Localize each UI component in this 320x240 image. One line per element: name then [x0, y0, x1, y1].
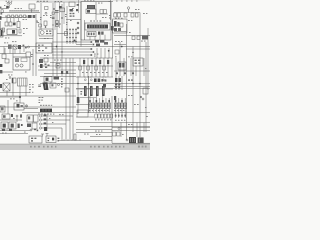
fan wire 4: [42, 127, 62, 129]
wire A1 drop: [31, 9, 33, 13]
cap row boxes: [89, 103, 127, 109]
transistor blobs: [83, 60, 109, 64]
tail marks: [115, 115, 126, 117]
cluster marks: [45, 64, 50, 69]
dash cluster low: [34, 129, 38, 132]
TR gray mark 1: [114, 28, 117, 31]
wire x13 vertical: [12, 47, 14, 58]
radio dark blob: [129, 137, 136, 143]
box inner marks: [48, 138, 50, 142]
circle low: [30, 129, 32, 131]
wire y122.5: [76, 122, 150, 124]
wire y130.5 right: [112, 130, 150, 132]
U1 pin drops: [90, 35, 105, 40]
junction dot 2: [88, 83, 90, 85]
wire y58: [40, 57, 113, 59]
dark blob right edge: [111, 26, 114, 31]
wire x112.5 vertical: [112, 20, 114, 58]
big box outline: [36, 43, 52, 53]
small box mid: [45, 7, 49, 10]
comp box a: [118, 13, 121, 17]
cluster box dark: [39, 59, 43, 63]
wire x126.5 vertical: [126, 24, 128, 140]
wire x140 vertical: [139, 13, 141, 138]
circle left of radio: [126, 139, 128, 141]
wire y132.5: [76, 132, 112, 134]
wire x96 vertical: [95, 2, 97, 20]
comp top boxes: [95, 114, 113, 118]
left edge dark mark: [0, 84, 2, 88]
TR dark comp right: [142, 36, 148, 40]
T-marks: [41, 133, 49, 136]
drops: [6, 91, 8, 96]
circle node dot: [26, 106, 27, 107]
bundle dark dot: [53, 8, 54, 9]
bottom band top edge: [0, 143, 150, 145]
cap row text: [89, 109, 124, 112]
circle top: [9, 77, 11, 79]
left mark: [77, 4, 79, 6]
comp box d2: [135, 13, 138, 17]
wire y127.5 right: [112, 127, 150, 129]
circle node: [142, 98, 144, 100]
marks right: [101, 79, 106, 82]
wire x81 vertical: [80, 2, 82, 47]
dot in box: [57, 65, 58, 66]
wire x146 vertical: [145, 42, 147, 132]
wire x120 vertical: [119, 42, 121, 76]
wire x78 vertical: [77, 76, 79, 114]
relay box outline: [118, 62, 126, 70]
switch marks: [44, 114, 47, 124]
wire y86.5 right: [114, 86, 150, 88]
small box pair b: [117, 132, 120, 136]
relay2 dark core: [11, 124, 14, 128]
comp outline: [56, 21, 59, 27]
lamp riser: [128, 9, 130, 12]
bottom box left: [29, 136, 42, 143]
module inner marks: [135, 60, 141, 64]
junction dots on y84: [132, 83, 134, 85]
cluster box c: [32, 123, 37, 129]
vertical x119: [118, 76, 120, 90]
relay dark blob 1: [119, 63, 121, 68]
cluster outline box: [113, 19, 128, 33]
junction dot y97: [19, 96, 21, 98]
cluster dark mark: [70, 9, 74, 12]
wire under gauge: [39, 38, 53, 40]
wire x5 vertical: [4, 48, 6, 54]
small box: [120, 23, 123, 27]
wire y31.5: [114, 31, 127, 33]
strip2 dark mark 2: [33, 15, 36, 18]
connector pin grid verticals: [67, 28, 76, 44]
wire y72: [0, 71, 13, 73]
contact K3 dark: [13, 23, 16, 26]
node dot: [45, 26, 46, 27]
junction dot: [140, 96, 142, 98]
box inner mark: [51, 84, 53, 86]
dark blob on bus: [18, 45, 21, 49]
top region border line: [36, 1, 81, 3]
wire stub: [0, 8, 7, 10]
left small blob: [76, 9, 78, 11]
row text: [82, 71, 108, 74]
bottom scan band: [0, 145, 150, 150]
resistor R1: [17, 22, 20, 28]
wire terminal strip top: [0, 12, 40, 14]
module A3: [60, 8, 65, 12]
pin dots: [77, 23, 80, 34]
marks right of box: [58, 138, 60, 142]
R text: [128, 95, 147, 108]
wire y117: [76, 116, 94, 118]
fan wire 1: [42, 115, 73, 117]
node circle: [45, 12, 47, 14]
box mid dark cell: [17, 104, 20, 108]
comp small: [44, 21, 47, 26]
relay coil circle 2: [20, 64, 23, 67]
connector inner dashes: [20, 78, 26, 86]
wire x110.5 vertical: [110, 0, 112, 20]
strip2 fill marks: [5, 15, 27, 17]
left edge dash 2: [0, 70, 2, 73]
relay inner rect2: [21, 58, 27, 62]
wire y44.5 right: [114, 44, 126, 46]
wire x36 vertical: [35, 14, 37, 76]
bus drop x20: [19, 49, 21, 54]
wire y35.5: [114, 35, 150, 37]
small box left: [5, 59, 9, 63]
connector pin grid dots: [66, 29, 77, 43]
wire y19.5: [66, 19, 81, 21]
box top: [44, 77, 52, 83]
TR dark block 2: [117, 22, 119, 27]
IC bars: [84, 86, 87, 96]
box dark edge: [12, 78, 13, 83]
wire bus y107: [0, 106, 76, 108]
bundle small box: [52, 12, 54, 14]
dot row: [116, 72, 134, 74]
wire main bus y46.5: [0, 46, 150, 48]
edge box inner: [1, 107, 4, 110]
connector J1: [0, 29, 3, 37]
wire y76.5: [40, 76, 76, 78]
wire y73.5: [44, 73, 76, 75]
TM text marks: [37, 1, 49, 39]
wire y108.5: [24, 108, 38, 110]
wire y92.5 left: [0, 92, 30, 94]
dark blob y71 a: [61, 71, 63, 74]
strip2 dark marks: [28, 15, 32, 18]
node circle: [36, 21, 38, 23]
dark mark low: [114, 96, 116, 100]
dark mark: [18, 124, 20, 128]
verticals below text cluster: [97, 48, 109, 58]
bar A slits: [89, 6, 93, 9]
gauge motor circle: [40, 31, 44, 35]
tiny text row above y107: [40, 105, 52, 106]
node dot x62: [61, 17, 62, 18]
amp dark blob: [138, 137, 144, 143]
dark square pair: [94, 79, 97, 83]
box B dark cell: [87, 10, 90, 13]
capacitor C2 plates: [55, 10, 59, 12]
box inner dark dot: [52, 138, 54, 141]
wire x41 vertical: [40, 3, 42, 30]
dark pair b: [118, 78, 121, 82]
fan line terminals: [91, 41, 95, 56]
box C inner marks: [88, 33, 95, 36]
box mid marks: [21, 105, 23, 107]
dark dot x33: [32, 63, 34, 65]
junction dot: [132, 52, 133, 53]
comp small: [19, 29, 21, 33]
gauge inner marks: [46, 31, 51, 35]
cluster box outline: [44, 58, 48, 62]
wire x70 vertical: [69, 58, 71, 140]
TR dark block 1: [114, 21, 117, 27]
IC bar 4: [102, 86, 105, 96]
box top dark cell: [46, 78, 49, 81]
BL text: [2, 118, 26, 134]
wire y49 right: [126, 48, 150, 50]
right cluster box: [69, 2, 75, 7]
U1 long dark bar: [87, 25, 108, 29]
switch S1: [1, 10, 3, 13]
dark square pair b: [98, 79, 101, 83]
wire y129.5: [76, 129, 112, 131]
ticks on y140.5: [64, 139, 80, 141]
box right: [143, 88, 148, 94]
verticals low: [121, 123, 144, 138]
small box pair: [113, 132, 116, 136]
U1 pin circles left: [77, 22, 79, 34]
junction dots on y83.5: [77, 83, 79, 85]
dark blob y71 b: [66, 71, 68, 74]
top text row: [84, 76, 106, 79]
wire y33: [57, 33, 66, 35]
wire right top: [114, 12, 140, 14]
wire x88.5 vertical strong: [88, 76, 90, 113]
text row: [84, 119, 111, 134]
marks below: [115, 84, 120, 88]
comp box e: [137, 36, 140, 40]
junction dot x74 y40: [74, 40, 76, 42]
wire y44.5: [76, 44, 92, 46]
marks: [128, 79, 133, 80]
lamp L2: [10, 2, 12, 4]
cluster marks: [70, 13, 75, 17]
marks column: [61, 78, 63, 87]
text row: [115, 119, 125, 122]
bottom box center: [46, 136, 56, 143]
long bar slits: [90, 25, 105, 28]
cluster dark blob: [40, 64, 43, 68]
TC text marks: [50, 1, 74, 25]
wire y120: [0, 119, 22, 121]
dark marks right of box C: [98, 32, 100, 35]
junction dot: [139, 83, 141, 85]
wire y97 stub: [0, 96, 20, 98]
wire x20 vertical mid: [19, 86, 21, 103]
wire y88.5: [76, 88, 150, 90]
junction dot: [21, 124, 23, 126]
wire y77 center: [76, 76, 113, 78]
dark text cluster: [95, 40, 108, 46]
marks: [20, 114, 22, 117]
circle: [16, 115, 18, 117]
IC bar 2: [90, 86, 93, 96]
wire x112 vertical low: [111, 96, 113, 143]
left edge mark: [0, 7, 1, 9]
contact row drops: [1, 18, 19, 31]
wire y52: [52, 51, 92, 53]
paper background: [0, 0, 150, 150]
wire x47 vertical low: [46, 114, 48, 131]
wire y143.2 bottom: [112, 142, 150, 144]
wire y70: [38, 69, 76, 71]
dark dot: [108, 50, 110, 52]
node N1 dark dot: [56, 23, 58, 25]
node circle: [28, 46, 30, 48]
vertical x122: [121, 76, 123, 90]
wire y14: [96, 13, 108, 15]
small box pair: [100, 10, 103, 14]
box mid: [14, 103, 24, 110]
switch 1: [39, 115, 41, 117]
lamp L1: [7, 2, 9, 4]
small box pair 2: [103, 10, 106, 14]
small box w dot: [56, 64, 60, 69]
comp marks on bus: [23, 45, 27, 49]
wire x62 vertical: [61, 4, 63, 76]
cap row top marks: [89, 100, 123, 102]
blob slit: [45, 84, 47, 89]
top box inner: [3, 115, 6, 118]
text above bar: [84, 0, 113, 21]
blob right of bars: [103, 84, 106, 88]
IC bar top circles: [84, 79, 104, 81]
edge box low: [0, 106, 5, 112]
wire x133 vertical: [132, 47, 134, 133]
comp box a0: [114, 13, 117, 17]
text right: [38, 114, 64, 123]
relay box 1: [1, 122, 8, 129]
comp blob on bus: [8, 45, 12, 49]
fan drop: [61, 128, 63, 141]
box right: [26, 52, 31, 57]
right cluster box b: [34, 115, 39, 122]
relay inner rect: [15, 58, 19, 62]
wire y97.5: [80, 97, 96, 99]
wire y55: [52, 54, 92, 56]
bottom marks row: [2, 129, 12, 131]
wire x67: [66, 6, 68, 34]
J1 dark bar: [1, 30, 3, 36]
cluster a inner: [28, 116, 30, 119]
wire x116 vertical: [115, 58, 117, 90]
TB1 dark cell: [12, 30, 15, 34]
U1 box C: [87, 32, 96, 37]
switch 3: [39, 123, 41, 125]
relay1 dark core: [3, 124, 6, 128]
wire y130.5 left: [0, 130, 30, 132]
dark bar slits: [43, 109, 49, 111]
wire y89 behind bars: [76, 88, 113, 90]
dash right of box: [11, 114, 13, 117]
relay dark blob 2: [122, 63, 124, 68]
wire x53 vertical: [52, 3, 54, 76]
text lines left: [39, 97, 44, 103]
TL text marks: [4, 1, 28, 39]
bus drop x4: [3, 47, 5, 54]
cap marks x39: [38, 85, 41, 87]
strip tick bulbs: [10, 10, 39, 11]
cap row tails: [116, 113, 126, 119]
wire y133.5 left: [0, 133, 28, 135]
BR text: [122, 116, 148, 135]
lamp L3: [127, 7, 129, 9]
bundle dots: [52, 23, 60, 25]
switch 2: [39, 119, 41, 121]
bundle dark box: [59, 6, 62, 8]
ML text: [4, 41, 33, 75]
relay coil circle 1: [15, 64, 18, 67]
dark text blob: [54, 77, 60, 80]
wire y53.5: [0, 53, 26, 55]
wire x57 vertical: [56, 10, 58, 76]
wire bus y112.5: [22, 112, 150, 114]
top small box: [2, 114, 10, 119]
wire y71 right: [114, 70, 150, 72]
U1 outline: [81, 2, 111, 41]
wire y66: [38, 65, 113, 67]
lamp base dark mark: [6, 6, 9, 9]
marks left: [80, 91, 82, 95]
wire y49: [52, 48, 92, 50]
dark bar under y107: [40, 109, 52, 112]
wire lamp drop: [8, 4, 10, 8]
left edge square: [0, 13, 2, 15]
node circle: [57, 83, 59, 85]
comp box d: [132, 36, 135, 40]
wire left vert: [0, 21, 2, 30]
wire y126.5: [90, 126, 150, 128]
contact K1: [5, 22, 8, 26]
cap row inner dots: [90, 104, 126, 107]
bus drop x10: [9, 49, 11, 54]
left edge dash 1: [0, 64, 2, 67]
x78 dark blob: [77, 97, 80, 103]
dark mark 2: [101, 32, 103, 35]
bus drop x24: [23, 47, 25, 53]
box inner marks: [38, 45, 47, 52]
comp box b: [124, 13, 127, 17]
comp at 66: [65, 32, 68, 36]
fan wire 3: [42, 123, 66, 125]
box beside blob: [50, 83, 56, 88]
wire x84.5 vertical: [84, 20, 86, 40]
wire y62.5: [50, 62, 76, 64]
amp slit: [139, 138, 141, 142]
bottom band text marks: [30, 146, 147, 148]
circle node: [25, 105, 27, 107]
module box: [133, 58, 143, 66]
junction dot y46 x56: [56, 46, 58, 48]
wire x8 vertical low: [7, 100, 9, 114]
cable bundle verticals: [55, 0, 79, 30]
